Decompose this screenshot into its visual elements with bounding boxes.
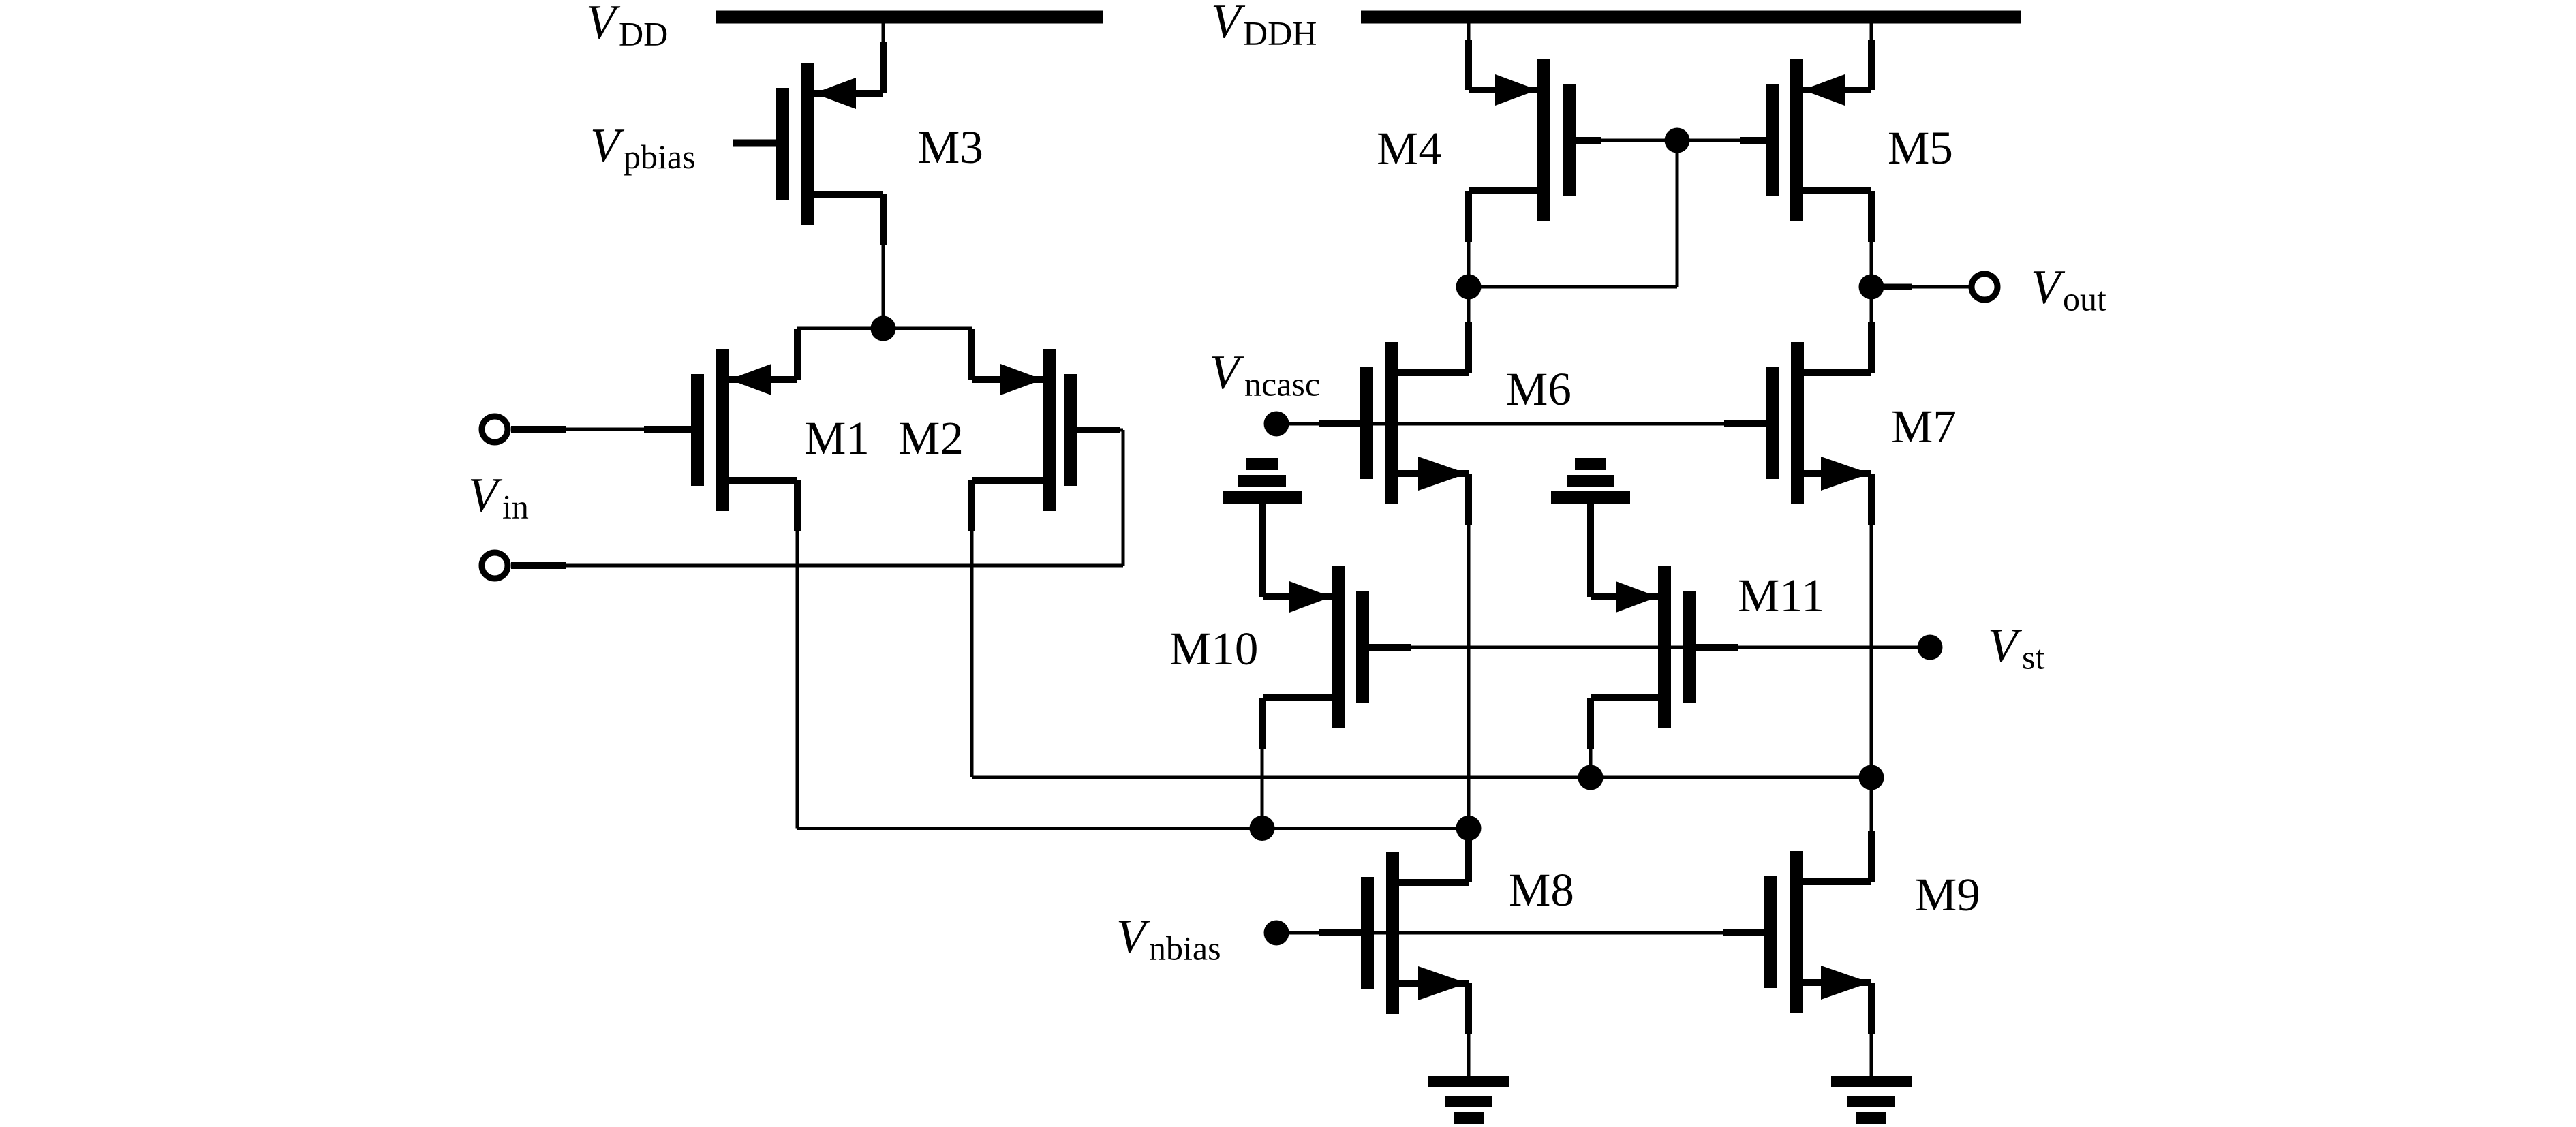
svg-text:in: in <box>502 488 529 526</box>
transistor M2 bottom lead <box>972 477 1043 484</box>
transistor M9 gate bar <box>1764 876 1777 988</box>
svg-text:M7: M7 <box>1891 401 1957 452</box>
wire node to M8 drain <box>1465 829 1472 883</box>
wire M4 gate to M5 gate <box>1576 137 1766 144</box>
transistor M7 gate bar <box>1766 367 1779 479</box>
wire M8 source to ground <box>1465 983 1472 1077</box>
transistor M11 channel bar <box>1658 566 1671 728</box>
transistor M9 channel bar <box>1790 851 1803 1013</box>
svg-text:V: V <box>2031 261 2066 314</box>
transistor M1 top lead <box>729 376 797 383</box>
transistor M1 channel bar <box>716 349 729 511</box>
transistor M11 bottom lead <box>1591 694 1658 701</box>
terminal Vnbias <box>1264 921 1289 946</box>
svg-text:M9: M9 <box>1915 869 1980 921</box>
transistor M2 channel bar <box>1043 349 1056 511</box>
node M10 drain junction <box>1250 816 1275 841</box>
terminal Vncasc <box>1264 412 1289 437</box>
svg-text:V: V <box>1116 910 1151 963</box>
transistor M6 channel bar <box>1385 342 1398 504</box>
label Vncasc <box>1210 346 1320 403</box>
transistor M5 gate bar <box>1766 84 1779 196</box>
wire tail node to M2 source <box>883 327 975 381</box>
svg-text:out: out <box>2063 280 2106 318</box>
node M7 source M9 drain junction <box>1859 765 1884 790</box>
transistor M7 top lead <box>1804 369 1871 376</box>
svg-text:M8: M8 <box>1509 864 1574 916</box>
transistor M4 source arrow <box>1495 74 1537 106</box>
transistor M9 source arrow <box>1821 966 1870 1000</box>
svg-text:ncasc: ncasc <box>1244 365 1320 403</box>
wire M6 source down to node <box>1465 474 1472 829</box>
svg-text:V: V <box>468 469 503 522</box>
transistor M8 channel bar <box>1386 852 1399 1014</box>
label VDD <box>586 0 668 53</box>
svg-text:M5: M5 <box>1888 122 1953 174</box>
wire M10 drain down to lower bus <box>1259 698 1266 829</box>
transistor M4 gate bar <box>1563 84 1576 196</box>
transistor M8 top lead <box>1399 879 1469 886</box>
transistor M10 source arrow <box>1289 581 1332 613</box>
svg-text:M11: M11 <box>1738 570 1825 621</box>
wire M3 drain to tail node <box>880 194 887 328</box>
power rail VDD <box>716 11 1103 24</box>
label Vnbias <box>1116 910 1221 968</box>
svg-text:V: V <box>590 119 625 172</box>
transistor M5 channel bar <box>1790 59 1803 221</box>
wire M5 drain to Vout node <box>1868 191 1875 287</box>
transistor M7 bottom lead <box>1804 470 1871 477</box>
svg-text:M1: M1 <box>804 412 870 464</box>
node Vout junction <box>1859 275 1884 300</box>
transistor M4 channel bar <box>1537 59 1550 221</box>
node M6 source M8 drain junction <box>1456 816 1482 841</box>
wire M4 drain node to M6 drain <box>1465 287 1472 373</box>
transistor M11 top lead <box>1591 593 1658 600</box>
svg-text:st: st <box>2022 638 2044 677</box>
transistor M1 source arrow <box>729 364 771 395</box>
wire tail node to M1 source <box>794 327 883 381</box>
transistor M10 channel bar <box>1332 566 1345 728</box>
wire Vpbias to M3 gate <box>733 140 776 147</box>
wire node to M9 drain <box>1868 777 1875 882</box>
transistor M8 gate bar <box>1361 877 1374 989</box>
wire M2 drain down <box>968 480 975 777</box>
ground under M8 <box>1428 1076 1509 1124</box>
transistor M3 top lead <box>814 90 883 97</box>
transistor M10 gate bar <box>1356 591 1369 703</box>
transistor M5 top lead <box>1803 87 1871 93</box>
node M4 drain junction <box>1456 275 1482 300</box>
svg-text:V: V <box>1988 619 2023 673</box>
transistor M1 gate bar <box>691 374 704 486</box>
wire Vnbias to M8 and M9 gates <box>1289 929 1764 936</box>
transistor M9 bottom lead <box>1803 979 1871 986</box>
wire gate node down to M4 drain node <box>1469 140 1679 289</box>
flipped ground symbol at M11 source <box>1551 458 1630 597</box>
transistor M8 bottom lead <box>1399 980 1469 987</box>
wire M7 source down to node <box>1868 474 1875 777</box>
transistor M10 bottom lead <box>1263 694 1332 701</box>
wire VDDH to M4 source <box>1465 23 1472 90</box>
wire upper bus M2 drain to M11 M7 <box>972 776 1871 779</box>
transistor M6 gate bar <box>1360 367 1373 479</box>
power rail VDDH <box>1361 11 2021 24</box>
wire Vout node to M7 drain <box>1868 287 1875 373</box>
wire Vin upper to M1 gate <box>511 426 691 433</box>
wire M9 source to ground <box>1868 983 1875 1077</box>
wire VDD to M3 source <box>880 23 887 93</box>
svg-text:V: V <box>1210 346 1244 399</box>
svg-text:M4: M4 <box>1377 123 1442 174</box>
label Vst <box>1988 619 2044 677</box>
transistor M2 top lead <box>972 376 1043 383</box>
wire VDDH to M5 source <box>1868 23 1875 90</box>
svg-text:M6: M6 <box>1506 363 1571 415</box>
label Vin <box>468 469 529 526</box>
transistor M5 bottom lead <box>1803 187 1871 194</box>
transistor M7 source arrow <box>1821 457 1870 491</box>
label VDDH <box>1211 0 1317 52</box>
svg-text:V: V <box>586 0 621 49</box>
wire M11 drain down to upper bus <box>1587 698 1594 777</box>
node M4-M5 gate junction <box>1665 128 1690 153</box>
transistor M5 source arrow <box>1803 74 1845 106</box>
flipped ground symbol at M10 source <box>1223 458 1302 597</box>
svg-text:V: V <box>1211 0 1246 48</box>
transistor M10 top lead <box>1263 593 1332 600</box>
transistor M6 top lead <box>1398 369 1469 376</box>
transistor M3 source arrow <box>814 78 856 109</box>
transistor M3 bottom lead <box>814 191 883 198</box>
transistor M4 top lead <box>1469 87 1537 93</box>
transistor M6 source arrow <box>1418 457 1467 491</box>
svg-text:DD: DD <box>619 15 668 53</box>
svg-text:M10: M10 <box>1169 623 1258 675</box>
transistor M6 bottom lead <box>1398 470 1469 477</box>
svg-text:M3: M3 <box>918 121 983 173</box>
wire lower bus M1 drain to M10 M6 <box>797 827 1469 830</box>
transistor M11 gate bar <box>1683 591 1696 703</box>
svg-text:pbias: pbias <box>624 138 696 176</box>
wire M1 drain down <box>794 480 801 829</box>
label Vpbias <box>590 119 696 176</box>
transistor M3 channel bar <box>801 63 814 225</box>
transistor M7 channel bar <box>1791 342 1804 504</box>
transistor M11 source arrow <box>1616 581 1658 613</box>
terminal Vout <box>1972 274 1997 300</box>
terminal Vin lower <box>482 553 508 578</box>
node tail junction <box>871 316 896 341</box>
wire M4 drain <box>1465 191 1472 287</box>
transistor M8 source arrow <box>1418 966 1467 1000</box>
transistor M2 gate bar <box>1064 374 1077 486</box>
transistor M1 bottom lead <box>729 477 797 484</box>
wire Vin lower to M2 gate <box>511 427 1125 569</box>
svg-text:nbias: nbias <box>1149 929 1221 968</box>
svg-text:DDH: DDH <box>1243 14 1317 52</box>
wire Vout node to terminal <box>1871 284 1971 290</box>
wire M10 M11 gates to Vst terminal <box>1369 644 1930 651</box>
wire Vncasc to M6 and M7 gates <box>1289 420 1766 427</box>
svg-text:M2: M2 <box>898 412 964 464</box>
label Vout <box>2031 261 2106 318</box>
terminal Vst <box>1918 635 1943 660</box>
ground under M9 <box>1831 1076 1912 1124</box>
transistor M4 bottom lead <box>1469 187 1537 194</box>
terminal Vin upper <box>482 416 508 442</box>
transistor M9 top lead <box>1803 878 1871 885</box>
transistor M3 gate bar <box>776 88 789 200</box>
node M11 drain junction <box>1578 765 1604 790</box>
transistor M2 source arrow <box>1000 364 1043 395</box>
